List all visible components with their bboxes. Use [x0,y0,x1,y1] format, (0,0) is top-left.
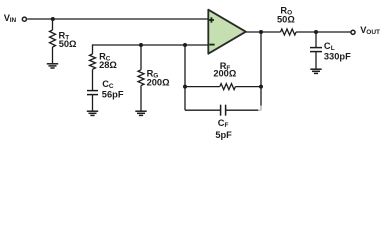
output terminal circle [351,30,355,34]
svg-text:F: F [225,122,229,129]
svg-text:56pF: 56pF [102,89,124,99]
capacitor CF [185,105,262,116]
wire feedback right vertical [260,32,262,106]
node VOUT label [360,25,380,36]
ground under CL [310,69,321,73]
node junction output/feedback [259,30,263,34]
label CC value [102,79,124,99]
svg-text:200Ω: 200Ω [147,77,171,87]
input terminal circle [22,17,26,21]
label CL value [324,41,351,61]
svg-text:50Ω: 50Ω [277,14,295,24]
node junction RG [139,43,143,47]
resistor RF [185,84,261,90]
resistor RG [138,45,144,111]
node VIN label [4,13,17,24]
wire input net [27,18,208,20]
node junction CL [314,30,318,34]
label RO value [277,6,295,25]
node junction RF right [259,85,263,89]
ground under RT [47,64,58,68]
resistor RO [281,29,351,35]
wire feedback left vertical [184,45,186,110]
svg-text:OUT: OUT [366,29,380,36]
node junction RF left [183,85,187,89]
svg-text:50Ω: 50Ω [59,39,77,49]
label RC value [99,52,117,70]
node junction feedback [183,43,187,47]
label RF value [213,61,237,79]
svg-text:IN: IN [10,17,17,24]
label RT value [59,30,78,49]
svg-text:28Ω: 28Ω [99,60,117,70]
svg-text:330pF: 330pF [324,51,351,61]
svg-text:200Ω: 200Ω [213,69,237,79]
label CF value [215,118,232,140]
ground under CC [87,111,98,115]
resistor RC [90,44,96,90]
ground under RG [135,111,146,115]
resistor RT [50,19,56,64]
capacitor CC [87,91,98,111]
node junction input/RT [51,17,55,21]
wire inverting net [93,44,209,46]
svg-text:5pF: 5pF [215,130,232,140]
wire output net [246,31,281,33]
op-amp U1 [208,10,246,54]
label RG value [147,69,171,88]
capacitor CL [310,32,322,69]
